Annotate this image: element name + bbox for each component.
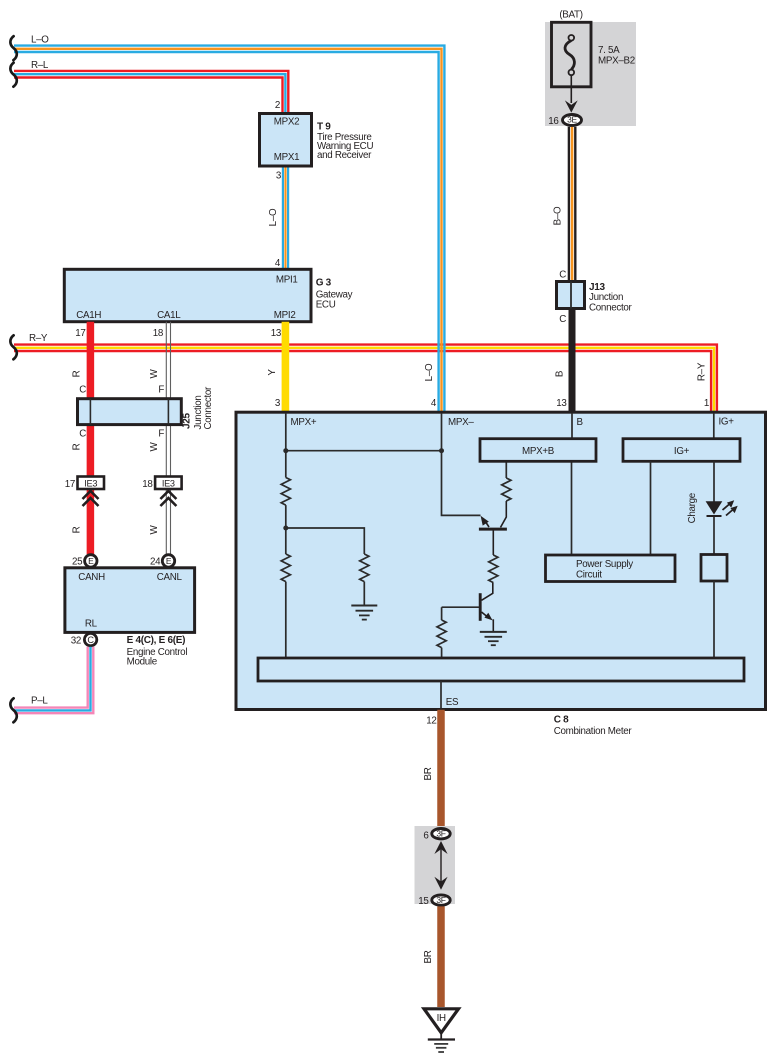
CM internal: B line [571,413,574,555]
svg-text:IG+: IG+ [674,446,690,457]
svg-text:IH: IH [437,1013,446,1024]
svg-text:B–O: B–O [553,206,564,225]
node dots [283,448,288,453]
wire to ground 1 [363,582,365,606]
svg-text:3F: 3F [436,828,445,838]
box power supply circuit [546,555,676,582]
svg-text:C: C [79,385,86,396]
svg-text:MPI2: MPI2 [274,310,296,321]
svg-text:W: W [149,524,160,534]
svg-text:25: 25 [72,557,83,568]
wire Y (yellow) MPI2 to CM MPX+ [282,322,290,412]
svg-text:C: C [87,635,94,645]
svg-text:Power Supply: Power Supply [576,559,633,570]
svg-text:E: E [166,556,172,566]
svg-text:CANH: CANH [78,572,105,583]
svg-text:Circuit: Circuit [576,570,602,581]
svg-text:Module: Module [127,657,158,668]
svg-text:IE3: IE3 [84,478,97,488]
connector IE3 right [155,477,182,490]
connector oval 3F bottom [432,895,450,905]
svg-text:3F: 3F [436,895,445,905]
resistor R3 [281,554,290,582]
resistor R2 [360,554,369,582]
svg-text:17: 17 [65,479,75,490]
continuation squiggle R-L [10,63,16,87]
svg-text:C 8: C 8 [554,715,569,726]
connector oval 3E [563,115,582,126]
svg-text:C: C [79,429,86,440]
gray box 3F [415,826,456,904]
resistor R4 collector load [502,478,511,501]
svg-text:MPX2: MPX2 [274,117,299,128]
box MPX+B [480,439,596,462]
svg-text:Connector: Connector [589,303,633,314]
svg-text:F: F [158,429,164,440]
svg-text:(BAT): (BAT) [559,9,582,20]
svg-text:MPX1: MPX1 [274,152,299,163]
svg-text:B: B [577,417,584,428]
resistor R1 [281,478,290,506]
svg-text:T 9: T 9 [317,122,331,133]
svg-text:C: C [559,314,566,325]
earth ground [428,1033,455,1052]
wire IG+ to PSC [650,461,652,555]
svg-text:3: 3 [276,171,282,182]
wire to R2 [286,528,365,554]
wire R-Y harness (red/yellow/red) to IG+ pin1 [14,345,717,412]
svg-text:IG+: IG+ [719,416,735,427]
svg-text:4: 4 [431,398,437,409]
pin circle 32 C [84,633,96,645]
wire R (red) CA1H down [87,322,95,555]
wire B-O (black/orange/black) [569,127,575,282]
arrows between 3F [434,841,447,890]
svg-text:Junction: Junction [589,292,623,303]
svg-text:Charge: Charge [687,492,698,523]
wire R5 to bus [441,648,443,658]
wire link MPX+ to MPX- [286,450,442,452]
resistor R5 [437,620,446,648]
svg-text:ES: ES [446,697,459,708]
ground triangle IH [424,1009,459,1033]
svg-text:L–O: L–O [268,208,279,226]
junction connector J25 [78,399,182,425]
bus bar ES [258,658,744,681]
svg-text:J25: J25 [182,412,193,429]
svg-text:E: E [88,556,94,566]
svg-text:and Receiver: and Receiver [317,150,372,161]
wire R4 to MPX+B [505,461,507,478]
svg-text:Combination Meter: Combination Meter [554,726,633,737]
svg-text:W: W [149,441,160,451]
svg-text:R–Y: R–Y [697,362,708,381]
svg-text:13: 13 [556,398,567,409]
svg-text:G 3: G 3 [316,278,332,289]
svg-text:3: 3 [275,398,281,409]
wire L-O T9 pin3 to G3 MPI1 [283,166,288,269]
svg-text:R–Y: R–Y [29,333,48,344]
svg-text:MPX+B: MPX+B [522,446,555,457]
ground 2 [480,632,507,645]
wire from fuse [570,75,572,103]
svg-text:R: R [71,370,82,377]
transponder box T9 [260,114,312,167]
svg-text:18: 18 [153,328,164,339]
svg-text:C: C [559,270,566,281]
svg-text:L–O: L–O [424,363,435,381]
svg-text:RL: RL [85,619,98,630]
svg-text:BR: BR [423,767,434,780]
chevron right [160,491,176,506]
svg-text:CA1H: CA1H [76,310,101,321]
svg-text:32: 32 [71,636,81,647]
svg-text:R: R [71,526,82,533]
svg-text:E 4(C), E 6(E): E 4(C), E 6(E) [127,635,186,646]
svg-text:Connector: Connector [203,386,214,430]
svg-text:24: 24 [150,557,161,568]
svg-text:17: 17 [75,328,85,339]
wire B (black) J13 to CM pin13 [569,309,576,413]
svg-text:ECU: ECU [316,300,336,311]
gray fuse block [545,22,636,126]
wire P-L (pink/blue/pink) from pin32 [14,647,93,713]
transistor Q2 [480,583,493,632]
svg-text:W: W [149,368,160,378]
CM internal: MPX- line [442,413,481,515]
gateway ECU box G3 [64,269,311,321]
wire to R5 [441,607,443,620]
wire R-L harness (red/blue/red) to T9 pin2 [14,71,288,114]
svg-text:MPI1: MPI1 [276,275,298,286]
svg-text:Y: Y [267,369,278,376]
svg-text:CA1L: CA1L [157,310,181,321]
svg-text:13: 13 [271,328,282,339]
wire L-O harness top (blue/orange/blue) to MPX- [14,46,444,412]
continuation squiggle R-Y [10,335,16,359]
svg-text:3E: 3E [567,115,577,125]
LED charge [706,500,738,516]
svg-text:6: 6 [423,831,429,842]
lamp box [701,555,727,582]
svg-text:IE3: IE3 [162,478,175,488]
svg-text:MPX–B2: MPX–B2 [598,56,635,67]
wire BR (brown) CM to 3F [437,710,445,828]
svg-text:CANL: CANL [157,572,183,583]
svg-text:18: 18 [142,479,153,490]
pin circle 25 E [85,555,97,567]
connector IE3 left [78,477,105,490]
svg-text:12: 12 [426,716,436,727]
chevron left [83,491,99,506]
svg-text:L–O: L–O [31,35,49,46]
svg-text:MPX–: MPX– [448,417,474,428]
svg-text:B: B [555,370,566,377]
svg-text:2: 2 [275,100,280,111]
svg-text:R–L: R–L [31,60,49,71]
ground 1 [351,606,377,620]
pin circle 24 E [162,555,174,567]
wire lamp to bus [713,581,715,658]
svg-text:16: 16 [548,116,559,127]
svg-text:BR: BR [423,950,434,963]
continuation squiggle L-O [10,36,16,60]
base wire Q2 [442,606,479,608]
CM internal: IG+ line [713,413,715,439]
engine control module box [65,568,195,633]
svg-text:7. 5A: 7. 5A [598,45,620,56]
connector oval 3F top [432,829,450,839]
box IG+ [623,439,740,462]
fuse 7.5A MPX-B2 [552,22,592,87]
transistor Q1 [479,501,507,555]
combination meter box C8 [236,412,766,709]
svg-text:P–L: P–L [31,696,48,707]
arrow down [565,100,578,112]
svg-text:MPX+: MPX+ [291,417,317,428]
svg-text:15: 15 [418,896,429,907]
wire BR 3F to ground [437,906,445,1007]
wire W (white) CA1L down [166,322,170,555]
wire IG+ to LED [713,461,715,554]
svg-text:R: R [71,443,82,450]
resistor Rb base [489,555,498,583]
junction connector J13 [557,282,585,309]
svg-text:1: 1 [704,398,709,409]
svg-text:4: 4 [275,258,281,269]
continuation squiggle P-L [10,698,16,722]
CM internal: MPX+ line [285,413,287,658]
svg-text:F: F [158,385,164,396]
wire ES pin [440,681,442,709]
